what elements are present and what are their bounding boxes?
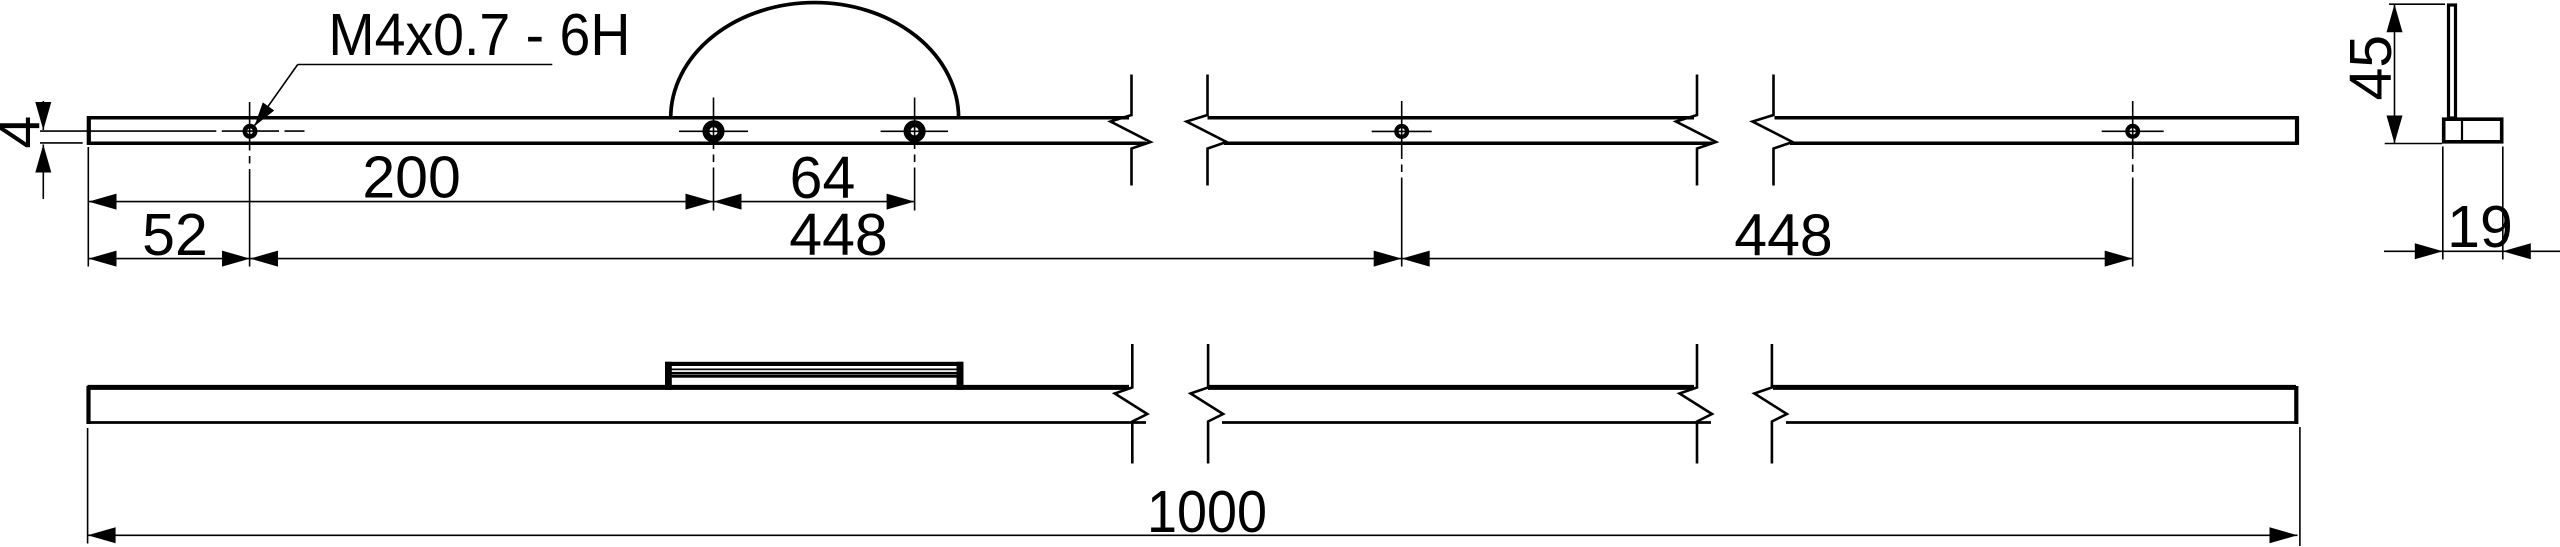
break line 3 (bottom view) [1680, 344, 1713, 464]
mounting plate inner line 3 [672, 375, 958, 378]
side view: 19 dim line [2384, 250, 2560, 252]
centerline horizontal hole segment3 [2102, 130, 2164, 132]
bottom view: bar left end edge [86, 386, 90, 424]
dim 1000 left arrow [88, 527, 116, 543]
mounting plate inner line 2 [672, 372, 958, 374]
bottom view: bar right end edge [2294, 386, 2298, 424]
bottom view: top edge seg3 [1773, 385, 2296, 390]
centerline vertical hole segment3 [2132, 101, 2134, 159]
bottom view: bottom edge seg3 [1786, 421, 2296, 424]
arrow right end dim 64 [887, 194, 915, 210]
dim 19 left arrow (right-pointing) [2415, 243, 2443, 259]
top view: bar right end edge [2295, 116, 2299, 145]
centerline horizontal hole arc-right [881, 130, 948, 132]
bowtie at 713.5 dim 200/64 [686, 194, 714, 210]
arrow left end dim 200 [89, 194, 117, 210]
svg-text:4: 4 [0, 116, 53, 149]
break line 4 (top view) [1753, 75, 1793, 186]
dim 19 right arrow (left-pointing) [2503, 243, 2531, 259]
dimension line 52/448/448 [89, 258, 2133, 260]
svg-text:19: 19 [2447, 194, 2513, 260]
svg-text:200: 200 [362, 145, 460, 211]
top view: bar segment 2 top edge [1208, 116, 1695, 120]
centerline vertical hole arc-right [914, 98, 916, 150]
mounting plate right wall [957, 362, 964, 390]
svg-text:M4x0.7 - 6H: M4x0.7 - 6H [328, 2, 630, 68]
centerline vertical hole arc-left [713, 98, 715, 150]
dimension 4: vertical line lower [42, 145, 44, 200]
dim 4 upper arrow (down) [35, 102, 51, 130]
svg-text:1000: 1000 [1147, 479, 1267, 545]
break line 2 (top view) [1187, 75, 1227, 186]
bottom view: top edge seg1 [88, 385, 1130, 390]
dimension 4: lower reference line [40, 142, 83, 144]
break line 3 (top view) [1676, 75, 1716, 186]
top view: bar left end edge [87, 116, 91, 145]
top view: bar segment 1 bottom edge [88, 141, 1147, 145]
dimension line 200/64 [89, 201, 915, 203]
dim 45 bottom arrow (down) [2387, 116, 2403, 144]
side view: 19 right extension [2502, 147, 2504, 260]
hole segment3 (ring) [2127, 126, 2138, 137]
dim 4 lower arrow (up) [35, 145, 51, 173]
extension line left (top view) [87, 147, 89, 267]
leader line M4 label [255, 65, 298, 126]
top view: bar segment 1 top edge [88, 116, 1130, 120]
bowtie at 1401.7 dim 448/448 [1374, 251, 1402, 267]
side view: base outline [2444, 119, 2502, 142]
side view: 45 dim line [2394, 4, 2396, 143]
centerline horizontal hole arc-left [679, 130, 748, 132]
handle arc [671, 3, 959, 118]
svg-text:448: 448 [789, 202, 887, 268]
arrow right end dim 448 [2105, 251, 2133, 267]
side view: pin outline [2449, 5, 2456, 118]
leader arrowhead M4 [254, 102, 274, 126]
dimension 4: vertical line upper [42, 101, 44, 130]
bottom view: 1000 dim line [88, 534, 2298, 536]
side view: 45 top extension [2389, 3, 2445, 5]
bottom view: top edge seg2 [1208, 385, 1694, 390]
break line 4 (bottom view) [1754, 344, 1787, 464]
break line 1 (bottom view) [1115, 344, 1148, 464]
centerline horizontal hole M4 [40, 130, 216, 132]
mounting plate inner line 1 [672, 369, 958, 371]
centerline horizontal hole segment2 [1372, 130, 1432, 132]
arrow left end dim 52 [89, 251, 117, 267]
hole under arc right (ring) [907, 124, 922, 139]
svg-text:45: 45 [2338, 35, 2404, 101]
break line 1 (top view) [1111, 75, 1151, 186]
side view: base divider [2461, 119, 2463, 143]
centerline vertical hole segment2 [1401, 101, 1403, 159]
hole segment2 (ring) [1396, 126, 1407, 137]
top view: bar segment 3 top edge [1775, 116, 2298, 120]
side view: 19 left extension [2442, 147, 2444, 260]
centerline vertical hole M4 [249, 102, 251, 151]
svg-text:52: 52 [142, 202, 208, 268]
top view: bar segment 2 bottom edge [1224, 141, 1712, 145]
bowtie at 250 dim 52/448 [222, 251, 250, 267]
mounting plate left wall [665, 362, 672, 390]
dim 45 top arrow (up) [2387, 4, 2403, 32]
bottom view: 1000 right extension [2299, 427, 2301, 546]
break line 2 (bottom view) [1191, 344, 1224, 464]
top view: bar segment 3 bottom edge [1790, 141, 2297, 145]
dim 1000 right arrow [2270, 527, 2298, 543]
mounting plate top edge (bottom view) [665, 362, 964, 366]
svg-text:448: 448 [1734, 203, 1832, 269]
bottom view: 1000 left extension [87, 428, 89, 544]
hole under arc left (ring) [706, 124, 721, 139]
bottom view: bottom edge seg2 [1222, 421, 1711, 424]
hole M4 left (ring) [245, 126, 255, 136]
bottom view: bottom edge seg1 [88, 421, 1147, 424]
side view: 45 bottom extension [2385, 143, 2442, 145]
